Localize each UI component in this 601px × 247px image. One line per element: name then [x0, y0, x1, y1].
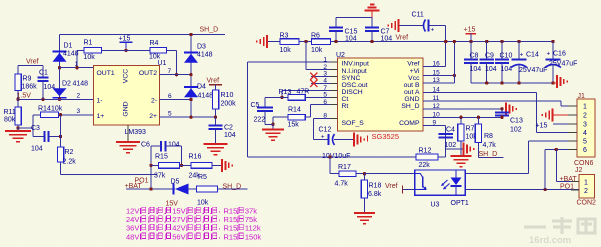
svg-text:102: 102 — [510, 127, 522, 134]
svg-text:3: 3 — [77, 108, 81, 115]
svg-text:R1: R1 — [84, 40, 93, 47]
svg-text:U3: U3 — [431, 202, 440, 209]
svg-text:C9: C9 — [485, 53, 494, 60]
svg-text:R5: R5 — [198, 174, 207, 181]
svg-text:222: 222 — [254, 117, 266, 124]
svg-text:CON2: CON2 — [577, 200, 597, 207]
svg-text:D4: D4 — [197, 84, 206, 91]
svg-text:SH_D: SH_D — [401, 103, 419, 110]
svg-text:+: + — [321, 135, 325, 141]
svg-text:R17: R17 — [338, 164, 351, 171]
svg-text:R15: R15 — [224, 215, 238, 224]
svg-text:COMP: COMP — [399, 120, 420, 127]
svg-text:C8: C8 — [470, 53, 479, 60]
svg-text:D3: D3 — [197, 44, 206, 51]
svg-text:R2: R2 — [65, 149, 74, 156]
svg-text:6.8k: 6.8k — [368, 191, 382, 198]
svg-text:SH_D: SH_D — [223, 184, 242, 191]
svg-text:R6: R6 — [311, 33, 320, 40]
svg-text:10k: 10k — [280, 47, 292, 54]
svg-text:SH_D: SH_D — [479, 151, 498, 158]
svg-text:GND: GND — [404, 96, 419, 103]
svg-text:C6: C6 — [141, 142, 150, 149]
svg-text:,: , — [219, 231, 221, 240]
svg-text:4148: 4148 — [198, 93, 214, 100]
svg-text:3: 3 — [323, 71, 327, 78]
svg-text:4.7k: 4.7k — [335, 181, 349, 188]
svg-text:INV.input: INV.input — [342, 61, 369, 68]
svg-text:OUT2: OUT2 — [139, 70, 157, 77]
svg-text:56V: 56V — [172, 232, 185, 241]
svg-text:R14: R14 — [38, 106, 51, 113]
svg-text:75k: 75k — [245, 215, 257, 224]
svg-text:OSC.out: OSC.out — [342, 82, 368, 89]
svg-text:6: 6 — [168, 93, 172, 100]
svg-text:+: + — [547, 51, 551, 58]
svg-text:8: 8 — [323, 113, 327, 120]
svg-text:C3: C3 — [31, 125, 40, 132]
svg-text:R10: R10 — [221, 92, 234, 99]
svg-text:+: + — [431, 27, 435, 34]
svg-text:R13: R13 — [279, 89, 292, 96]
svg-text:1-: 1- — [97, 98, 103, 105]
svg-text:Vref: Vref — [385, 183, 398, 190]
svg-text:R16: R16 — [189, 154, 202, 161]
svg-text:104: 104 — [345, 36, 357, 43]
svg-text:1: 1 — [323, 56, 327, 63]
svg-text:1: 1 — [584, 180, 588, 187]
svg-text:SH_D: SH_D — [200, 27, 219, 34]
svg-text:104: 104 — [168, 142, 180, 149]
svg-text:Vcc: Vcc — [408, 75, 420, 82]
svg-text:2: 2 — [584, 188, 588, 195]
svg-text:C10: C10 — [500, 53, 513, 60]
svg-text:104: 104 — [501, 66, 513, 73]
svg-text:R18: R18 — [369, 183, 382, 190]
svg-text:102: 102 — [445, 142, 457, 149]
svg-text:104: 104 — [224, 132, 236, 139]
svg-text:C16: C16 — [553, 51, 566, 58]
svg-text:22k: 22k — [419, 162, 431, 169]
svg-text:48V: 48V — [126, 232, 139, 241]
svg-text:37k: 37k — [154, 173, 166, 180]
svg-text:Ct: Ct — [342, 96, 349, 103]
svg-text:R12: R12 — [419, 148, 432, 155]
svg-text:Vref: Vref — [207, 78, 220, 85]
svg-text:VCC: VCC — [123, 69, 130, 83]
svg-text:5: 5 — [323, 92, 327, 99]
svg-text:2.2k: 2.2k — [63, 159, 77, 166]
svg-text:CON6: CON6 — [574, 160, 594, 167]
svg-text:200k: 200k — [221, 101, 237, 108]
svg-text:1.5V: 1.5V — [17, 93, 32, 100]
svg-text:GND: GND — [123, 101, 130, 116]
svg-text:104: 104 — [470, 66, 482, 73]
svg-text:R11: R11 — [4, 109, 16, 116]
svg-text:C5: C5 — [251, 102, 260, 109]
svg-text:D5: D5 — [171, 179, 180, 186]
svg-text:4: 4 — [583, 130, 587, 137]
svg-text:186k: 186k — [22, 84, 38, 91]
svg-text:4148: 4148 — [197, 52, 213, 59]
svg-text:2-: 2- — [151, 98, 157, 105]
svg-text:104: 104 — [31, 146, 43, 153]
svg-text:150k: 150k — [245, 232, 262, 241]
svg-text:6: 6 — [323, 99, 327, 106]
svg-text:+15: +15 — [536, 123, 548, 130]
svg-text:C15: C15 — [345, 29, 358, 36]
svg-text:104: 104 — [381, 36, 393, 43]
svg-text:6: 6 — [583, 147, 587, 154]
svg-text:R4: R4 — [150, 40, 159, 47]
svg-text:4: 4 — [323, 78, 327, 85]
svg-text:C7: C7 — [381, 29, 390, 36]
svg-text:10k: 10k — [51, 106, 63, 113]
svg-text:C2: C2 — [224, 125, 233, 132]
svg-text:16rd.com: 16rd.com — [529, 235, 571, 246]
svg-text:R15: R15 — [155, 154, 168, 161]
svg-text:R9: R9 — [23, 76, 32, 83]
svg-text:47R: 47R — [297, 89, 310, 96]
svg-text:out B: out B — [404, 82, 420, 89]
svg-text:R7: R7 — [466, 126, 475, 133]
svg-text:Vref: Vref — [407, 61, 419, 68]
svg-text:U2: U2 — [336, 52, 345, 59]
svg-text:R3: R3 — [280, 33, 289, 40]
svg-text:1: 1 — [583, 104, 587, 111]
svg-text:104: 104 — [44, 84, 56, 91]
svg-text:27V: 27V — [172, 215, 185, 224]
svg-text:C12: C12 — [319, 127, 332, 134]
svg-text:104: 104 — [485, 66, 497, 73]
svg-text:10k: 10k — [197, 200, 209, 207]
svg-text:15k: 15k — [288, 122, 300, 129]
svg-text:3: 3 — [583, 122, 587, 129]
svg-text:R8: R8 — [484, 133, 493, 140]
svg-text:J2: J2 — [575, 167, 583, 174]
svg-text:4,7k: 4,7k — [483, 142, 497, 149]
svg-text:D1: D1 — [64, 43, 73, 50]
svg-text:5: 5 — [168, 111, 172, 118]
svg-text:2: 2 — [583, 113, 587, 120]
svg-text:1+: 1+ — [97, 113, 105, 120]
svg-text:Vref: Vref — [396, 35, 409, 42]
svg-text:,: , — [219, 214, 221, 223]
svg-text:J1: J1 — [578, 93, 586, 100]
svg-text:2: 2 — [77, 93, 81, 100]
svg-text:R15: R15 — [224, 232, 238, 241]
svg-text:Rt: Rt — [342, 103, 349, 110]
svg-text:SOF_S: SOF_S — [342, 120, 365, 127]
svg-text:C13: C13 — [510, 118, 523, 125]
svg-text:4148: 4148 — [63, 51, 79, 58]
svg-text:25V47uF: 25V47uF — [519, 67, 547, 74]
svg-text:5: 5 — [583, 139, 587, 146]
svg-text:10k: 10k — [311, 47, 323, 54]
svg-text:2+: 2+ — [149, 113, 157, 120]
svg-text:R14: R14 — [288, 107, 301, 114]
svg-text:+15: +15 — [464, 27, 476, 34]
svg-text:SG3525: SG3525 — [372, 132, 400, 141]
svg-text:C4: C4 — [446, 127, 455, 134]
svg-text:24V: 24V — [126, 215, 139, 224]
svg-text:25V47uF: 25V47uF — [549, 61, 577, 68]
svg-text:C11: C11 — [412, 12, 424, 19]
svg-text:4148: 4148 — [73, 81, 89, 88]
svg-text:OPT1: OPT1 — [451, 200, 469, 207]
svg-text:Vref: Vref — [26, 59, 39, 66]
svg-text:SYNC: SYNC — [342, 75, 361, 82]
svg-text:D2: D2 — [62, 81, 71, 88]
svg-text:10k: 10k — [84, 54, 96, 61]
svg-text:C1: C1 — [39, 70, 48, 77]
svg-text:80k: 80k — [4, 117, 16, 124]
svg-text:+: + — [520, 52, 524, 59]
svg-text:C14: C14 — [526, 52, 539, 59]
svg-text:OUT1: OUT1 — [97, 70, 115, 77]
svg-text:7: 7 — [168, 68, 172, 75]
